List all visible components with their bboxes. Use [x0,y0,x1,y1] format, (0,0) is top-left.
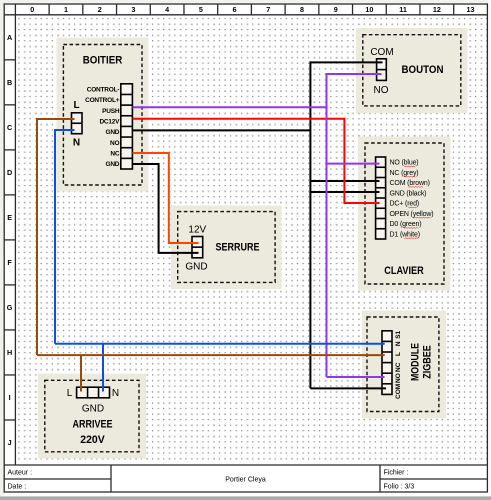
svg-text:CONTROL-: CONTROL- [87,87,120,94]
ARRIVEE terminal strip (3 cells) [77,387,110,398]
svg-text:GND: GND [106,129,120,136]
element box SERRURE [171,206,282,290]
svg-text:5: 5 [199,5,203,14]
svg-text:L: L [395,352,402,356]
wire blue bus vertical [54,129,56,344]
svg-text:Fichier :: Fichier : [384,469,409,476]
wire brown bus to ZIGBEE L [37,354,385,356]
BOITIER right terminal strip (8 pins) [121,84,133,169]
svg-text:Portier Cleya: Portier Cleya [225,477,266,484]
svg-text:9: 9 [334,5,338,14]
svg-text:A: A [7,33,12,42]
wire BOITIER GND to black bus [133,129,311,131]
svg-text:13: 13 [467,5,475,14]
wire BOITIER GND to SERRURE GND [133,164,199,253]
svg-text:Auteur :: Auteur : [8,469,33,476]
element box ARRIVEE 220V [38,374,146,459]
svg-text:I: I [9,393,11,402]
wire BOITIER NC to SERRURE 12V (orange) [133,153,199,243]
BOITIER left terminal L/N [72,113,83,134]
svg-text:PUSH: PUSH [102,108,120,115]
svg-text:ARRIVEE: ARRIVEE [73,419,113,431]
svg-text:BOITIER: BOITIER [83,54,123,66]
svg-text:CLAVIER: CLAVIER [384,265,424,277]
svg-text:NC (grey): NC (grey) [390,170,419,177]
element box BOUTON [356,28,468,113]
BOUTON terminal COM/NO [377,59,387,81]
svg-text:MODULE: MODULE [409,343,421,381]
svg-text:NO: NO [110,140,119,147]
svg-text:6: 6 [233,5,237,14]
svg-text:DC+ (red): DC+ (red) [390,201,420,208]
title block texts [8,469,415,490]
svg-text:NC: NC [395,362,402,372]
MODULE ZIGBEE terminal strip (6 pins) [382,331,392,395]
svg-text:GND: GND [185,261,207,272]
svg-text:N: N [395,341,402,346]
wire BOITIER DC12V to CLAVIER DC+ (red) [133,119,380,203]
wire BOUTON COM to bus [310,61,382,63]
svg-text:H: H [7,348,12,357]
svg-text:Folio : 3/3: Folio : 3/3 [384,483,415,490]
wire BOUTON NO to purple bus [327,73,382,75]
svg-text:G: G [7,303,13,312]
svg-text:L: L [73,100,79,111]
wire black bus to ZIGBEE COM [310,387,386,389]
wire BOITIER L to brown bus [37,118,75,120]
svg-text:B: B [7,78,12,87]
svg-text:SERRURE: SERRURE [216,242,260,254]
wire blue bus to ZIGBEE N [55,343,385,345]
wire ARRIVEE L up to brown bus [80,355,82,391]
svg-text:COM: COM [370,47,393,58]
svg-text:4: 4 [165,5,169,14]
wire BOITIER N to blue bus [55,129,75,131]
svg-text:2: 2 [98,5,102,14]
svg-text:10: 10 [365,5,373,14]
wire black bus to CLAVIER COM [310,180,379,182]
svg-text:CONTROL+: CONTROL+ [85,97,120,104]
wire brown bus vertical [36,118,38,355]
svg-text:GND: GND [82,404,104,415]
svg-text:GND (black): GND (black) [390,190,427,197]
wire purple bus vertical [326,73,328,377]
svg-text:S1: S1 [395,330,402,338]
wire purple bus to ZIGBEE NO [327,376,385,378]
window bottom edge strip [0,496,491,500]
svg-text:220V: 220V [80,434,105,446]
svg-text:J: J [8,438,12,447]
svg-text:BOUTON: BOUTON [402,64,444,76]
svg-text:D0 (green): D0 (green) [390,221,422,228]
svg-text:NC: NC [110,150,119,157]
svg-text:COM: COM [395,384,402,399]
svg-text:3: 3 [131,5,135,14]
wire purple bus to BOITIER PUSH [133,106,327,108]
svg-text:ZIGBEE: ZIGBEE [421,345,433,379]
wire black bus vertical [309,61,311,388]
wire ARRIVEE N up to blue bus [102,344,104,392]
svg-text:1: 1 [64,5,68,14]
svg-text:N: N [73,138,80,149]
svg-text:12V: 12V [188,224,206,235]
wire black bus to CLAVIER GND [310,191,379,193]
CLAVIER terminal strip (8 pins) [376,157,386,239]
svg-text:8: 8 [300,5,304,14]
svg-text:DC12V: DC12V [99,118,120,125]
svg-text:11: 11 [399,5,407,14]
svg-text:0: 0 [30,5,34,14]
element box CLAVIER [358,137,451,291]
SERRURE terminal 12V/GND [192,237,203,258]
element box MODULE ZIGBEE [362,311,446,419]
svg-text:NO: NO [374,85,389,96]
svg-text:Date :: Date : [8,483,27,490]
svg-text:NO: NO [395,373,402,383]
svg-text:COM (brown): COM (brown) [390,180,430,187]
svg-text:L: L [67,388,73,399]
svg-text:D: D [7,168,12,177]
svg-text:OPEN (yellow): OPEN (yellow) [390,211,434,218]
svg-text:D1 (white): D1 (white) [390,231,420,238]
svg-text:F: F [7,258,12,267]
svg-text:E: E [7,213,12,222]
svg-text:N: N [112,388,119,399]
svg-text:7: 7 [266,5,270,14]
svg-text:NO (blue): NO (blue) [390,160,419,167]
BOITIER pin labels [85,87,120,169]
svg-text:C: C [7,123,12,132]
svg-text:GND: GND [106,161,120,168]
element box BOITIER [57,38,149,192]
svg-text:12: 12 [433,5,441,14]
wire purple bus to CLAVIER NO [327,163,380,165]
